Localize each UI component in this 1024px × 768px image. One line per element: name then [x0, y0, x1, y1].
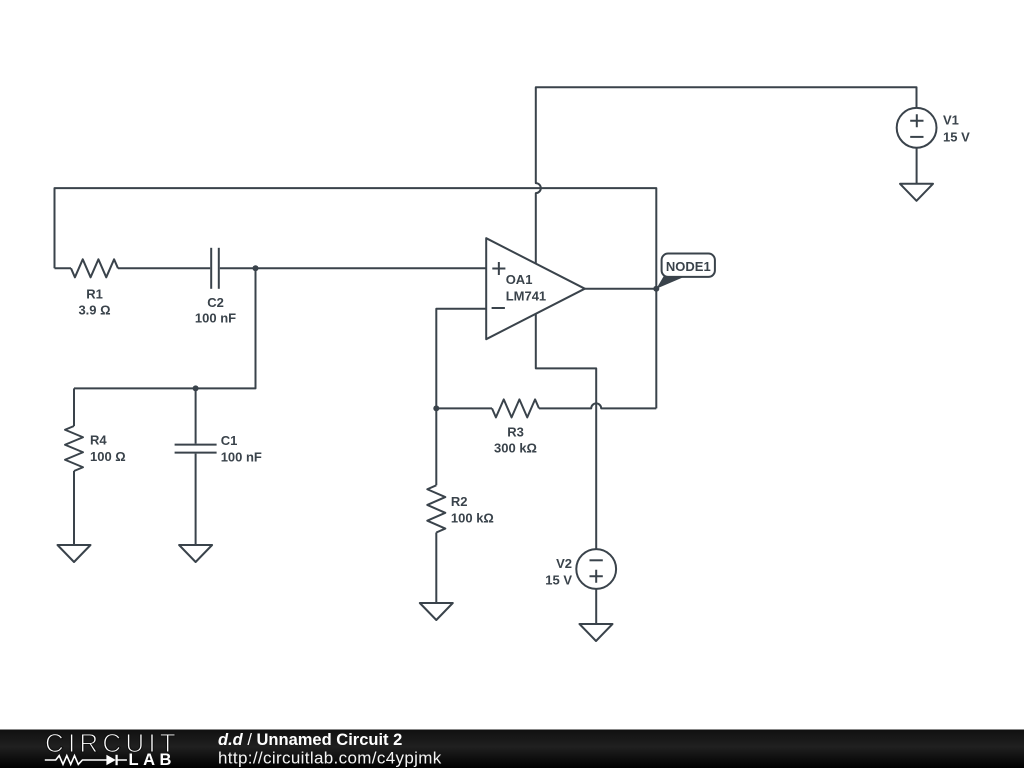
svg-text:R4: R4 — [90, 432, 107, 447]
wire: V2 bottom to ground — [595, 589, 597, 624]
footer: url text — [218, 749, 442, 768]
label: C1 value 100 nF — [221, 450, 262, 465]
svg-text:3.9 Ω: 3.9 Ω — [78, 303, 110, 318]
svg-text:C2: C2 — [207, 295, 224, 310]
svg-text:15 V: 15 V — [545, 572, 572, 587]
svg-text:100 kΩ: 100 kΩ — [451, 510, 494, 525]
footer bar — [0, 730, 1024, 768]
wire: op-amp positive supply pin up to V+ rail (hops over feedback wire) — [536, 87, 917, 263]
svg-text:100 Ω: 100 Ω — [90, 449, 126, 464]
svg-text:V1: V1 — [943, 113, 959, 128]
label: R1 designator — [86, 287, 103, 302]
svg-text:300 kΩ: 300 kΩ — [494, 441, 537, 456]
op-amp OA1 — [486, 238, 585, 339]
wire: C1 bottom to ground — [195, 454, 197, 545]
wire: R4 bottom to ground — [73, 471, 75, 545]
svg-text:R1: R1 — [86, 287, 103, 302]
junction: C1 top node on lower rail — [193, 385, 199, 391]
label: C2 designator — [207, 295, 224, 310]
footer: title text — [218, 731, 402, 749]
svg-text:d.d / Unnamed Circuit 2: d.d / Unnamed Circuit 2 — [218, 731, 402, 749]
wire: tap down from C2 node to lower rail — [74, 268, 256, 388]
wire: junction to R3 left — [436, 407, 492, 409]
svg-text:R3: R3 — [507, 425, 524, 440]
svg-text:15 V: 15 V — [943, 129, 970, 144]
capacitor C2 — [211, 248, 219, 289]
wire: C2 right plate to op-amp non-inverting input — [220, 267, 486, 269]
svg-text:OA1: OA1 — [506, 272, 533, 287]
label: C1 designator — [221, 433, 238, 448]
label: V1 value 15 V — [943, 129, 970, 144]
ground: below C1 — [179, 545, 212, 562]
label: R4 value 100 ohm — [90, 449, 126, 464]
label: V2 value 15 V — [545, 572, 572, 587]
label: R4 designator — [90, 432, 107, 447]
ground: below V1 — [900, 184, 933, 201]
node NODE1 flag — [656, 254, 715, 289]
label: OA1 part LM741 — [506, 289, 546, 304]
wire: lower rail into R4 top — [73, 388, 75, 426]
svg-text:C1: C1 — [221, 433, 238, 448]
wire: C1 top — [195, 388, 197, 443]
resistor R3 — [492, 399, 539, 417]
label: NODE1 text — [666, 259, 711, 274]
label: R3 designator — [507, 425, 524, 440]
resistor R4 — [65, 426, 83, 471]
logo CIRCUIT LAB — [45, 728, 180, 768]
wire: R3 right to output node column (hops over V2 supply wire) — [539, 403, 656, 408]
wire: feedback loop top (node1 up-left to R1 left) — [55, 188, 657, 408]
ground: below V2 — [580, 624, 613, 641]
svg-text:100 nF: 100 nF — [195, 311, 236, 326]
svg-text:NODE1: NODE1 — [666, 259, 711, 274]
capacitor C1 — [175, 445, 217, 453]
svg-text:V2: V2 — [556, 556, 572, 571]
junction: output node (NODE1) — [653, 286, 659, 292]
wire: R1 right to C2 left plate — [118, 267, 210, 269]
label: R1 value 3.9 ohm — [78, 303, 110, 318]
label: C2 value 100 nF — [195, 311, 236, 326]
wire: left stub into R1 — [55, 267, 72, 269]
wire: op-amp negative supply pin down then right then down to V2 — [536, 314, 596, 549]
resistor R2 — [427, 485, 445, 532]
wire: V1 minus to ground — [916, 148, 918, 184]
svg-text:R2: R2 — [451, 494, 468, 509]
wire: op-amp output to node — [585, 288, 657, 290]
label: R3 value 300 kohm — [494, 441, 537, 456]
wire: R2 bottom to ground — [435, 533, 437, 604]
ground: below R2 — [420, 603, 453, 620]
resistor R1 — [71, 259, 118, 277]
label: R2 designator — [451, 494, 468, 509]
wire: inverting input from feedback node — [436, 309, 486, 409]
svg-text:http://circuitlab.com/c4ypjmk: http://circuitlab.com/c4ypjmk — [218, 749, 442, 768]
svg-text:LM741: LM741 — [506, 289, 546, 304]
wire: R2 top from junction — [435, 408, 437, 485]
junction: node at C2 output / tap down — [253, 265, 259, 271]
voltage source V1 — [897, 108, 937, 148]
label: R2 value 100 kohm — [451, 510, 494, 525]
voltage source V2 — [576, 549, 616, 589]
label: V1 designator — [943, 113, 959, 128]
junction: inverting feedback node (R2/R3 junction) — [433, 405, 439, 411]
ground: below R4 — [58, 545, 91, 562]
label: V2 designator — [556, 556, 572, 571]
svg-text:100 nF: 100 nF — [221, 450, 262, 465]
label: OA1 designator — [506, 272, 533, 287]
svg-text:LAB: LAB — [129, 751, 176, 768]
